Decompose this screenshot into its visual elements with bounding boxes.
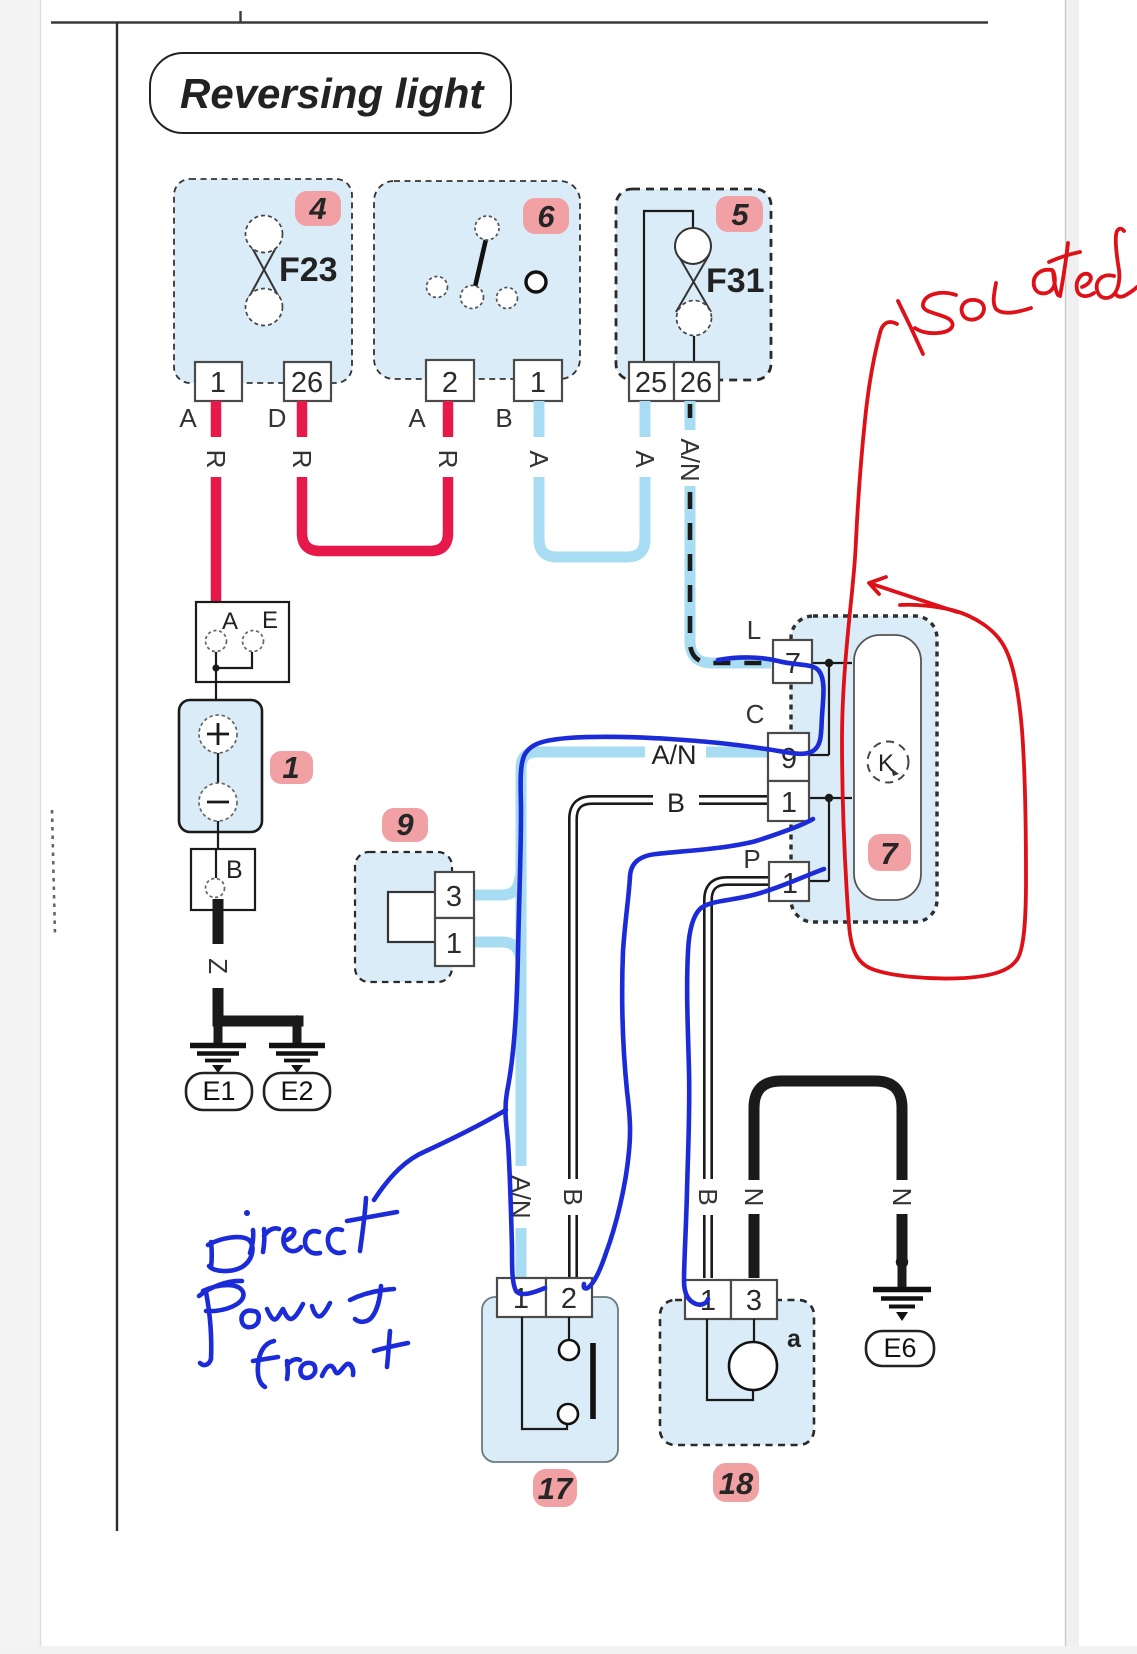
node label P <box>743 844 760 874</box>
svg-text:N: N <box>739 1188 769 1207</box>
svg-text:E6: E6 <box>883 1333 916 1363</box>
svg-text:A/N: A/N <box>675 438 705 481</box>
wire Z (connector B to ground node) <box>213 899 224 1022</box>
svg-text:2: 2 <box>561 1283 577 1315</box>
bulb a (component 18) <box>729 1325 802 1390</box>
svg-text:4: 4 <box>308 191 326 226</box>
red ink note "ISoLated" <box>898 229 1137 354</box>
pin 1 (component 17) <box>497 1278 546 1317</box>
pin 1 (component 9) <box>435 918 474 966</box>
pin 25 (component 5) <box>629 362 674 401</box>
wire R (pin 26 comp 4 to pin 2 comp 6, U shape) <box>302 401 448 551</box>
component box 5 (fuse box) <box>616 189 771 380</box>
blue ink trace (B wire path to comp 17 pin 2) <box>584 819 813 1288</box>
component box 6 (reversing light switch) <box>374 181 580 379</box>
wire B double-line (comp 7 pin 1 to comp 17 pin 2) <box>573 800 768 1278</box>
stray dashed fragment (left page edge) <box>52 810 55 935</box>
junction dot (E6 ground) <box>896 1256 908 1287</box>
wire A/N (pin 26 comp 5 to pin 7/L of component 7), blue with black dashes <box>690 401 771 663</box>
svg-text:26: 26 <box>680 367 712 399</box>
ground symbol E6 <box>873 1290 931 1322</box>
svg-text:F23: F23 <box>279 251 338 289</box>
node label C <box>746 699 765 729</box>
svg-text:Reversing light: Reversing light <box>180 70 485 117</box>
svg-text:E1: E1 <box>202 1076 235 1106</box>
pin 1 (component 7, node P) <box>769 862 809 901</box>
wire label B (left vertical) <box>558 1179 588 1215</box>
battery 1 <box>179 700 262 832</box>
svg-text:1: 1 <box>781 787 797 819</box>
blue ink note "Power" <box>199 1281 394 1365</box>
svg-text:A: A <box>524 450 554 468</box>
wire label B (right vertical) <box>693 1179 723 1215</box>
wire label R <box>433 450 463 469</box>
pin 1 (component 7, wire B) <box>768 781 809 821</box>
component box 18 (reversing lamp) <box>660 1300 814 1445</box>
pin 3 (component 9) <box>435 872 474 918</box>
ground symbol E2 <box>269 1046 325 1074</box>
wire label R <box>287 450 317 469</box>
wire B double-line (comp 7 pin 1/P to comp 18 pin 1) <box>708 881 769 1278</box>
ground label E6 <box>866 1331 934 1366</box>
junction dot (A/E link) <box>212 664 219 671</box>
svg-text:25: 25 <box>635 367 667 399</box>
component box 17 (switch unit) <box>482 1297 618 1462</box>
wire label N (left) <box>739 1188 769 1207</box>
junction lines (pins to unit) <box>809 659 852 881</box>
wire (junction to battery +) <box>215 668 217 716</box>
title: Reversing light <box>150 53 511 133</box>
svg-text:E: E <box>262 607 278 634</box>
control unit body (pill) <box>854 635 921 900</box>
wire (battery - to connector B) <box>217 821 219 849</box>
blue ink trace (power path along A/N wire to comp 17 pin 1) <box>505 657 823 1294</box>
svg-text:3: 3 <box>746 1285 762 1317</box>
pin 3 (component 18) <box>731 1280 777 1319</box>
fuse F23 <box>246 216 338 326</box>
page top rule <box>51 11 988 23</box>
wire label A/N (horizontal) <box>645 738 706 770</box>
svg-text:17: 17 <box>538 1471 574 1506</box>
svg-text:9: 9 <box>781 743 797 775</box>
svg-text:a: a <box>787 1325 802 1353</box>
svg-text:A: A <box>222 608 238 635</box>
svg-text:P: P <box>743 844 760 874</box>
svg-text:R: R <box>433 450 463 469</box>
pin 1 (component 18) <box>685 1280 731 1319</box>
wire A/N trunk (horizontal to pin 9/C of comp 7 and vertical to pin 1 comp 17) <box>521 752 768 1278</box>
wire label A/N (trunk) <box>504 1168 538 1226</box>
wire label Z <box>203 958 233 974</box>
ground symbol E1 <box>190 1046 246 1074</box>
ground label E2 <box>264 1073 330 1110</box>
svg-text:A: A <box>630 450 660 468</box>
svg-text:A: A <box>408 403 426 433</box>
wire label B (horizontal) <box>653 786 699 818</box>
wire R (pin 1 comp 4 to battery A) <box>211 401 222 634</box>
ground bus bar (node E1/E2) <box>218 1015 303 1043</box>
component box 7 (control unit) <box>791 616 937 922</box>
badge 18 <box>713 1463 759 1502</box>
svg-text:B: B <box>558 1188 588 1205</box>
blue ink trace (P wire path to comp 18 pin 1) <box>684 869 824 1305</box>
connector B <box>191 849 255 910</box>
svg-text:7: 7 <box>880 836 899 871</box>
svg-text:B: B <box>495 403 512 433</box>
svg-text:2: 2 <box>442 367 458 399</box>
badge 4 <box>295 191 341 226</box>
badge 5 <box>716 196 763 232</box>
svg-text:K: K <box>878 750 894 777</box>
svg-text:R: R <box>287 450 317 469</box>
ground label E1 <box>186 1073 252 1110</box>
svg-text:18: 18 <box>719 1466 754 1501</box>
wire label A <box>630 450 660 468</box>
wire label A <box>524 450 554 468</box>
component box 4 (fuse box) <box>174 179 352 383</box>
node label D (pin 26) <box>268 403 287 433</box>
internal wire (fuse F31 to pin 26) <box>693 336 695 362</box>
branch wire (comp 9 pin 3 to trunk) <box>474 876 520 895</box>
pin 9 (component 7, node C) <box>768 733 809 781</box>
blue ink branch (to note "Direct") <box>374 1110 506 1200</box>
red ink loop (isolated circle around component 7) <box>842 322 1026 978</box>
pin 2 (component 6) <box>426 360 474 401</box>
pin 2 (component 17) <box>546 1278 592 1317</box>
pin 26 (component 5) <box>674 362 719 401</box>
svg-text:E2: E2 <box>280 1076 313 1106</box>
svg-text:1: 1 <box>210 367 226 399</box>
lamp wiring (component 18) <box>707 1319 754 1400</box>
svg-text:26: 26 <box>291 367 323 399</box>
wire label R <box>201 450 231 469</box>
wire N (comp 18 pin 3 to ground E6, U shape) <box>754 1081 902 1278</box>
badge 17 <box>533 1469 577 1507</box>
node label A (pin 1) <box>179 403 197 433</box>
pin 1 (component 6) <box>514 360 562 401</box>
svg-text:5: 5 <box>731 197 749 232</box>
svg-text:1: 1 <box>282 750 299 785</box>
svg-text:N: N <box>887 1188 917 1207</box>
page left vertical rule <box>116 22 118 1531</box>
badge 6 <box>523 198 569 234</box>
blue ink note "from +" <box>253 1331 408 1387</box>
svg-text:L: L <box>747 615 761 645</box>
pin 26 (component 4) <box>284 362 331 401</box>
badge 7 <box>868 834 911 871</box>
connector A/E (battery connector box) <box>196 602 289 682</box>
badge 9 <box>382 807 428 842</box>
svg-text:A/N: A/N <box>651 740 696 770</box>
switch symbol (component 6) <box>427 216 547 309</box>
svg-text:Z: Z <box>203 958 233 974</box>
wire label N (right) <box>887 1188 917 1207</box>
svg-text:F31: F31 <box>706 262 765 300</box>
svg-text:A: A <box>179 403 197 433</box>
wire label A/N <box>675 438 705 481</box>
branch wire (comp 9 pin 1 to trunk) <box>474 942 521 962</box>
wire A (pin 1 comp 6 to pin 25 comp 5, U shape) <box>539 401 645 557</box>
blue ink note "Direct" <box>208 1198 397 1271</box>
svg-text:B: B <box>667 788 685 818</box>
svg-text:D: D <box>268 403 287 433</box>
svg-text:3: 3 <box>446 881 462 913</box>
internal wire (pin 25 to fuse F31) <box>644 211 693 362</box>
svg-text:C: C <box>746 699 765 729</box>
node label A (pin 2 comp 6) <box>408 403 426 433</box>
switch contacts (component 17) <box>522 1317 593 1429</box>
svg-text:B: B <box>226 856 243 884</box>
svg-text:1: 1 <box>446 928 462 960</box>
svg-text:9: 9 <box>396 807 414 842</box>
pin 1 (component 4) <box>195 362 242 401</box>
pin 7 (component 7, node L) <box>773 640 812 683</box>
svg-text:B: B <box>693 1188 723 1205</box>
badge 1 <box>270 750 313 785</box>
svg-text:R: R <box>201 450 231 469</box>
svg-text:6: 6 <box>537 199 555 234</box>
connector body (component 9) <box>388 892 441 942</box>
relay K symbol <box>868 742 909 783</box>
node label B (pin 1 comp 6) <box>495 403 512 433</box>
component box 9 (connector) <box>355 852 452 982</box>
node label L <box>747 615 761 645</box>
fuse F31 <box>675 228 765 336</box>
svg-text:1: 1 <box>530 367 546 399</box>
